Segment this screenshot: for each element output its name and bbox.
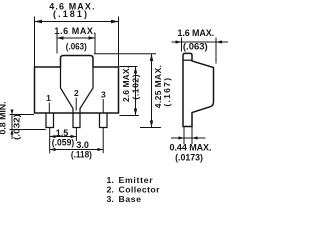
svg-text:Base: Base bbox=[119, 194, 142, 204]
text 1.6 MAX (front) bbox=[54, 26, 96, 36]
dimension 0.44 MAX extension lines bbox=[184, 127, 192, 144]
dimension 4.6 MAX dimension line bbox=[35, 20, 119, 24]
text (.059) bbox=[52, 138, 74, 148]
leader line pin 3 bbox=[102, 99, 104, 113]
dimension 4.6 MAX extension lines bbox=[35, 17, 119, 68]
text 1.5 bbox=[56, 128, 69, 138]
svg-text:(.181): (.181) bbox=[53, 9, 87, 19]
text (.102) (rotated) bbox=[131, 74, 141, 99]
center lead funnel (tab narrowing to lead 2) bbox=[61, 67, 94, 113]
leader line pin 1 bbox=[48, 103, 50, 113]
svg-text:2.: 2. bbox=[107, 185, 114, 195]
text (.0173) bbox=[175, 152, 203, 162]
dimension 3.0 dimension line bbox=[50, 148, 103, 151]
text (.118) bbox=[71, 150, 92, 160]
side view tab step line bbox=[183, 59, 192, 61]
text pin number 2 bbox=[74, 88, 79, 98]
text 4.25 MAX (rotated) bbox=[153, 65, 163, 108]
dimension 4.25 MAX dimension line bbox=[150, 54, 153, 128]
svg-text:1.: 1. bbox=[107, 175, 114, 185]
dimension 1.5 extension lines bbox=[50, 128, 77, 153]
text (.032) (rotated) bbox=[12, 114, 22, 140]
svg-text:(.063): (.063) bbox=[183, 42, 208, 52]
svg-text:(.102): (.102) bbox=[131, 74, 141, 99]
legend line 2: Collector bbox=[107, 185, 161, 195]
text 2.6 MAX (rotated) bbox=[121, 66, 131, 102]
text 1.6 MAX (side) bbox=[178, 28, 215, 38]
text (.063) (front) bbox=[66, 42, 87, 52]
text 0.44 MAX bbox=[170, 142, 212, 152]
svg-text:0.8 MIN.: 0.8 MIN. bbox=[0, 102, 8, 135]
dimension 2.6 MAX dimension line bbox=[134, 67, 137, 116]
svg-text:0.44 MAX.: 0.44 MAX. bbox=[170, 142, 212, 152]
lead 3 (front view) bbox=[100, 113, 108, 128]
dimension 0.8 MIN extension lines bbox=[10, 115, 46, 130]
lead 2 (front view) bbox=[73, 113, 80, 128]
svg-text:(.118): (.118) bbox=[71, 150, 92, 160]
svg-text:1.5: 1.5 bbox=[56, 128, 69, 138]
dimension 1.6 MAX (side) dimension line bbox=[172, 40, 229, 43]
svg-text:3.0: 3.0 bbox=[76, 140, 89, 150]
text pin number 3 bbox=[101, 90, 106, 100]
svg-text:Emitter: Emitter bbox=[119, 175, 154, 185]
leader line pin 2 bbox=[75, 98, 77, 111]
svg-text:(.063): (.063) bbox=[66, 42, 87, 52]
legend line 3: Base bbox=[107, 194, 142, 204]
svg-text:1: 1 bbox=[46, 93, 51, 103]
text (.167) (rotated) bbox=[162, 78, 172, 107]
package body front view outline with collector tab bbox=[35, 56, 119, 114]
dimension 0.44 MAX dimension line bbox=[171, 136, 206, 139]
svg-text:3.: 3. bbox=[107, 194, 114, 204]
svg-text:1.6 MAX.: 1.6 MAX. bbox=[178, 28, 215, 38]
dimension 1.6 MAX (front) dimension line bbox=[57, 36, 95, 39]
text (.063) (side) bbox=[183, 42, 208, 52]
dimension 0.8 MIN dimension line bbox=[10, 110, 13, 140]
svg-text:(.059): (.059) bbox=[52, 138, 74, 148]
dimension 3.0 extension line bbox=[102, 128, 104, 153]
svg-text:(.032): (.032) bbox=[12, 114, 22, 140]
dimension 1.6 MAX (side) extension lines bbox=[182, 38, 217, 64]
dimension 4.25 MAX extension lines bbox=[94, 54, 161, 128]
svg-text:1.6 MAX.: 1.6 MAX. bbox=[54, 26, 96, 36]
text 0.8 MIN (rotated) bbox=[0, 102, 8, 135]
dimension 1.6 MAX (front) extension lines bbox=[57, 33, 95, 54]
dimension 2.6 MAX extension lines bbox=[120, 67, 140, 116]
text pin number 1 bbox=[46, 93, 51, 103]
side view package outline bbox=[183, 53, 214, 126]
svg-text:(.167): (.167) bbox=[162, 78, 172, 107]
svg-text:2.6 MAX.: 2.6 MAX. bbox=[121, 66, 131, 102]
svg-text:(.0173): (.0173) bbox=[175, 152, 203, 162]
lead 1 (front view) bbox=[46, 113, 54, 128]
dimension 1.5 dimension line bbox=[50, 135, 77, 138]
text 3.0 bbox=[76, 140, 89, 150]
text (.181) bbox=[53, 9, 87, 19]
text 4.6 MAX bbox=[49, 1, 94, 11]
svg-text:Collector: Collector bbox=[119, 185, 161, 195]
svg-text:2: 2 bbox=[74, 88, 79, 98]
legend line 1: Emitter bbox=[107, 175, 154, 185]
svg-text:3: 3 bbox=[101, 90, 106, 100]
